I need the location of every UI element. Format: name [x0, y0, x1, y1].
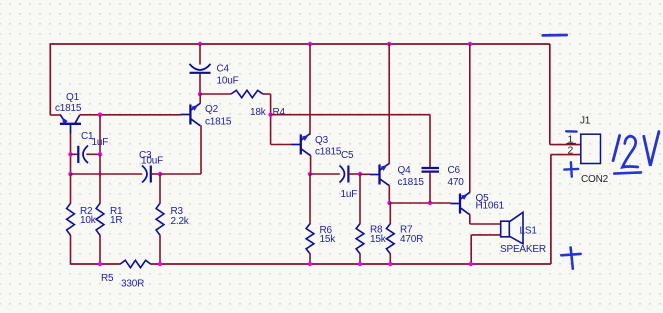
- wire Q2 emitter up: [199, 94, 201, 104]
- svg-text:CON2: CON2: [581, 174, 609, 185]
- resistor R3: [156, 203, 164, 235]
- wire C6 bottom riser: [429, 172, 431, 203]
- svg-text:SPEAKER: SPEAKER: [500, 244, 546, 255]
- wire Q1 base down: [70, 133, 72, 174]
- handwritten underline of 12V: [614, 172, 641, 173]
- wire R8 bottom lead: [359, 253, 361, 264]
- handwritten 12V: [613, 136, 620, 161]
- node R4/C6 feed: [268, 113, 272, 117]
- node rail R3: [158, 262, 162, 266]
- svg-text:1uF: 1uF: [92, 137, 109, 148]
- resistor R1: [96, 203, 104, 235]
- svg-text:c1815: c1815: [55, 103, 82, 114]
- wire Q5 collector down: [469, 214, 471, 224]
- wire down to C1 right: [99, 115, 101, 155]
- svg-text:2: 2: [568, 145, 574, 157]
- handwritten plus bottom: [561, 247, 580, 268]
- svg-text:470R: 470R: [400, 234, 423, 245]
- transistor Q5: [451, 192, 470, 214]
- wire R8 top lead: [359, 174, 361, 224]
- wire R6 top lead: [309, 174, 311, 224]
- node C3/R3/Q2C: [158, 172, 162, 176]
- node base row left: [68, 172, 72, 176]
- node rail speaker: [469, 262, 473, 266]
- resistor R2: [67, 203, 75, 235]
- svg-text:R4: R4: [273, 107, 286, 118]
- connector J1 body: [581, 134, 601, 163]
- wire R4 right + down: [263, 93, 271, 95]
- wire C4 bottom lead: [199, 74, 201, 95]
- wire to Q3 base: [271, 144, 292, 146]
- wire speaker bottom: [471, 234, 501, 236]
- wire speaker bottom down: [470, 235, 472, 264]
- svg-text:H1061: H1061: [476, 200, 505, 211]
- svg-text:10uF: 10uF: [141, 155, 163, 166]
- capacitor C4: [190, 64, 211, 70]
- capacitor C6: [422, 167, 440, 169]
- resistor R6: [306, 224, 314, 254]
- svg-text:1uF: 1uF: [341, 189, 358, 200]
- wire C6 top riser: [429, 115, 431, 168]
- svg-text:Q4: Q4: [398, 165, 412, 176]
- wire R3 top lead: [159, 174, 161, 204]
- svg-text:c1815: c1815: [398, 177, 425, 188]
- svg-text:10k: 10k: [80, 215, 97, 226]
- wire R2 top lead: [70, 174, 72, 204]
- svg-text:C5: C5: [341, 150, 354, 161]
- node rail R8: [358, 262, 362, 266]
- wire node to C5: [310, 173, 340, 175]
- wire C3 right to node: [151, 173, 160, 175]
- wire C4 top lead: [199, 44, 201, 65]
- svg-text:1R: 1R: [110, 215, 122, 226]
- wire Q1 collector to node: [80, 114, 181, 116]
- svg-text:C4: C4: [217, 63, 230, 74]
- wire Q4 collector down: [388, 186, 390, 204]
- svg-text:J1: J1: [580, 115, 591, 126]
- transistor Q2: [181, 103, 200, 125]
- wire R3 bottom lead: [159, 235, 161, 264]
- node rail R6: [308, 262, 312, 266]
- svg-text:2.2k: 2.2k: [171, 216, 190, 227]
- resistor R8: [356, 224, 364, 254]
- node top rail Q3: [308, 42, 312, 46]
- wire Q3 collector down: [310, 155, 312, 174]
- wire C1 right lead: [86, 153, 100, 155]
- svg-text:R5: R5: [101, 273, 114, 284]
- svg-text:10uF: 10uF: [217, 76, 239, 87]
- wire rail to Q3 emitter: [309, 44, 311, 134]
- svg-text:15k: 15k: [320, 234, 337, 245]
- wire R1 column: [99, 154, 101, 203]
- wire R6 bottom lead: [309, 253, 311, 264]
- wire node to Q2 collector riser: [160, 173, 201, 175]
- wire rail to Q5 emitter: [469, 44, 471, 193]
- resistor R4: [231, 90, 263, 97]
- wire rail to Q4 emitter: [388, 44, 390, 164]
- svg-text:C6: C6: [448, 165, 461, 176]
- svg-text:470: 470: [448, 177, 465, 188]
- resistor R7: [386, 224, 394, 254]
- capacitor C5: [340, 166, 345, 183]
- node top rail Q4: [387, 42, 391, 46]
- wire C1 left lead: [71, 153, 79, 155]
- transistor Q4: [370, 163, 389, 185]
- transistor Q3: [291, 133, 310, 155]
- wire bottom rail right part: [150, 263, 551, 265]
- node rail R7: [388, 262, 392, 266]
- node rail R1: [98, 262, 102, 266]
- wire left rail down: [49, 43, 51, 115]
- node Q4C/R7: [387, 201, 391, 205]
- node C4/R4/Q2E: [198, 92, 202, 96]
- handwritten minus top: [543, 34, 567, 37]
- node C1 right: [98, 152, 102, 156]
- wire R1 bottom lead: [99, 235, 101, 264]
- svg-text:15k: 15k: [370, 234, 387, 245]
- capacitor C3: [142, 166, 147, 183]
- wire to Q1 emitter: [50, 114, 61, 116]
- wire R7 bottom lead: [389, 253, 391, 264]
- wire C5 right: [348, 173, 360, 175]
- wire to speaker top: [470, 223, 501, 225]
- wire bias row to C3: [71, 173, 143, 175]
- speaker LS1: [501, 221, 510, 237]
- wire long feed R4 node to C6: [271, 114, 430, 116]
- capacitor C1: [77, 146, 79, 163]
- wire Q4C row to Q5 base: [390, 202, 451, 204]
- node C1 left: [68, 152, 72, 156]
- resistor R5: [120, 260, 150, 267]
- wire node to R4: [200, 93, 231, 95]
- svg-text:Q3: Q3: [315, 135, 329, 146]
- svg-text:330R: 330R: [121, 279, 144, 290]
- svg-text:Q1: Q1: [66, 92, 80, 103]
- wire pin2: [551, 154, 581, 156]
- handwritten minus at pin1: [566, 130, 576, 133]
- node R1 top: [98, 172, 101, 175]
- svg-text:c1815: c1815: [205, 117, 232, 128]
- wire R2 bottom lead: [70, 235, 72, 265]
- wire pin2 down to bottom rail: [550, 155, 552, 264]
- pin 1 underline: [566, 142, 576, 144]
- node C5/R8/Q4B: [358, 172, 362, 176]
- wire pin1: [550, 144, 581, 146]
- wire Q2 collector riser: [200, 125, 202, 174]
- handwritten plus at pin2: [564, 162, 578, 177]
- node top rail Q5: [468, 42, 472, 46]
- node junction Q1C/C1: [98, 113, 102, 117]
- wire to Q4 base: [360, 173, 370, 175]
- node C6 bottom: [428, 201, 432, 205]
- wire right rail down to pin1: [549, 44, 551, 145]
- wire bottom rail: [71, 263, 121, 265]
- wire top supply rail: [50, 43, 550, 45]
- svg-text:c1815: c1815: [315, 146, 342, 157]
- svg-text:LS1: LS1: [520, 225, 538, 236]
- node top rail / C4: [198, 42, 202, 46]
- transistor Q1 (bar horizontal, leads up): [60, 115, 81, 134]
- wire R7 top lead: [389, 203, 391, 224]
- svg-text:18k: 18k: [250, 107, 267, 118]
- node Q3C/C5/R6: [308, 172, 312, 176]
- svg-text:Q2: Q2: [205, 104, 219, 115]
